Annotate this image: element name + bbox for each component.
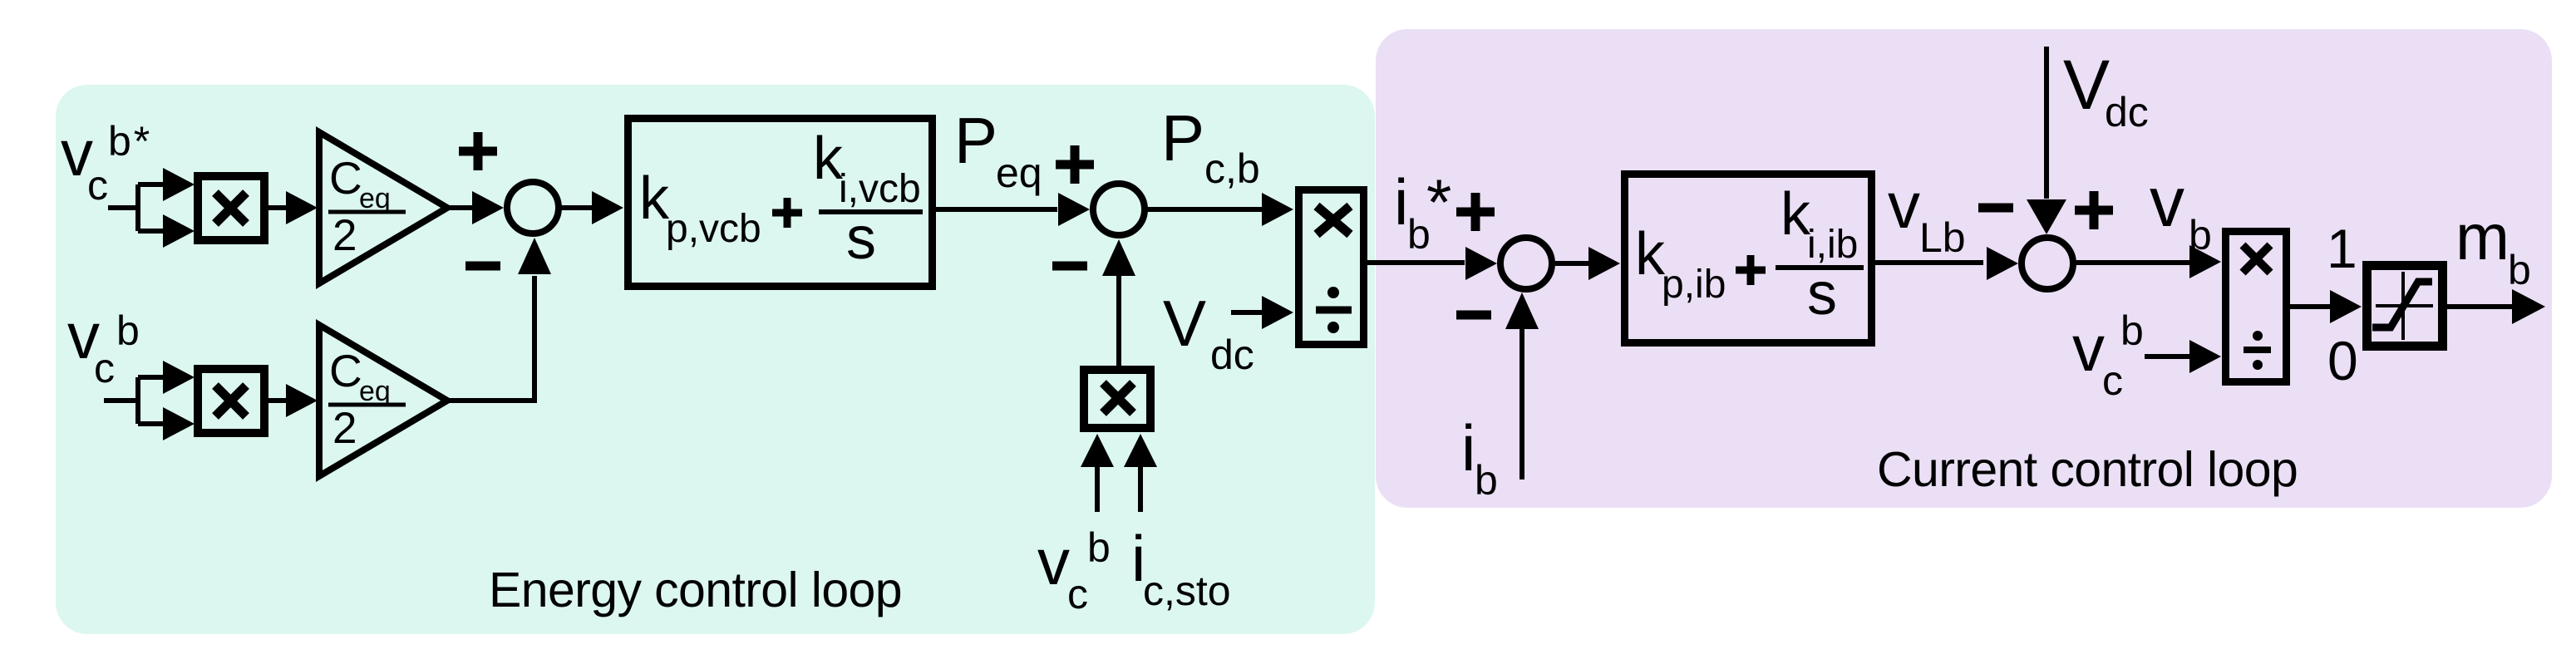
- arrowhead into PI1: [592, 191, 623, 224]
- wire S3 to PI2: [1555, 261, 1591, 266]
- arrowhead into D1 multiply port: [1262, 193, 1293, 226]
- svg-text:dc: dc: [1210, 332, 1254, 378]
- svg-text:P: P: [1161, 101, 1204, 175]
- arrowhead vcb into D2 divide port: [2189, 340, 2221, 373]
- svg-text:s: s: [1807, 261, 1837, 327]
- svg-text:b: b: [2120, 307, 2144, 354]
- wire saturation to output: [2447, 304, 2514, 309]
- gain block G1 Ceq/2: [319, 132, 447, 283]
- arrowhead vcb into M3: [1081, 434, 1114, 467]
- arrowhead into multiplier M2 bottom: [163, 407, 195, 440]
- label 1 saturation upper limit: [2327, 218, 2357, 279]
- arrowhead into gain G1: [286, 191, 318, 224]
- svg-text:b*: b*: [108, 118, 152, 165]
- energy control loop region: [56, 85, 1375, 634]
- node vcb* input label: [61, 116, 152, 209]
- svg-text:dc: dc: [2105, 89, 2149, 135]
- svg-text:2: 2: [332, 211, 357, 260]
- arrowhead into multiplier M2 top: [163, 361, 195, 394]
- divider block D2: [2226, 232, 2287, 382]
- svg-text:c: c: [87, 162, 108, 209]
- wire Vdc into D1: [1231, 310, 1262, 315]
- wire PI2 to summing junction S4: [1875, 260, 1983, 265]
- wire Vdc down into S4: [2044, 47, 2049, 199]
- svg-text:0: 0: [2327, 330, 2358, 391]
- label ic,sto below M3: [1131, 522, 1231, 614]
- arrowhead Vdc into D1 divide port: [1262, 296, 1293, 329]
- plus sign at S1: [459, 132, 497, 170]
- svg-text:Current control loop: Current control loop: [1877, 442, 2298, 497]
- summing junction S3: [1500, 238, 1552, 289]
- arrowhead output mb: [2512, 289, 2545, 324]
- node label vb: [2150, 163, 2212, 258]
- minus sign at S2: [1052, 262, 1087, 271]
- wire vcb into D2: [2145, 354, 2190, 359]
- saturation block: [2367, 266, 2443, 347]
- wire G1 to summing junction S1: [447, 205, 474, 210]
- arrowhead into PI2: [1588, 247, 1620, 280]
- node label mb: [2455, 200, 2531, 293]
- svg-text:eq: eq: [359, 183, 391, 214]
- arrowhead feedback into S1 bottom: [518, 238, 551, 274]
- PI controller block PI1 kp,vcb + ki,vcb/s: [628, 119, 933, 287]
- arrowhead Vdc into S4 top: [2027, 199, 2066, 234]
- label vcb below M3: [1037, 524, 1111, 617]
- arrowhead into saturation block: [2330, 290, 2362, 323]
- svg-text:v: v: [2072, 312, 2105, 385]
- wire D1 to summing junction S3: [1367, 260, 1465, 265]
- svg-text:eq: eq: [359, 376, 391, 407]
- svg-text:C: C: [329, 345, 362, 396]
- label ib: [1461, 411, 1498, 504]
- node label vLb: [1888, 169, 1966, 261]
- svg-text:c: c: [1067, 571, 1088, 617]
- arrowhead into S4: [1987, 247, 2018, 280]
- node label Pc,b: [1161, 101, 1260, 192]
- svg-text:p,ib: p,ib: [1662, 263, 1726, 307]
- svg-text:c,b: c,b: [1204, 145, 1260, 192]
- arrowhead M3 into S2 bottom: [1102, 239, 1135, 276]
- multiplier M1 (squarer): [198, 176, 264, 240]
- summing junction S2: [1093, 184, 1145, 235]
- wire vcb input: [104, 377, 165, 424]
- svg-text:c: c: [2102, 357, 2123, 404]
- svg-text:i: i: [1394, 165, 1408, 238]
- svg-text:s: s: [846, 205, 876, 272]
- wire ic,sto into M3: [1138, 464, 1143, 512]
- svg-text:*: *: [1426, 165, 1451, 238]
- label Current control loop: [1877, 442, 2298, 497]
- wire M1 to gain G1: [268, 205, 289, 210]
- wire S1 to PI1: [559, 205, 595, 210]
- arrowhead into D2 multiply port: [2189, 245, 2221, 278]
- label Energy control loop: [489, 563, 902, 617]
- svg-text:c,sto: c,sto: [1143, 568, 1231, 614]
- arrowhead into S3: [1465, 247, 1497, 280]
- minus sign at S4: [1978, 204, 2013, 213]
- PI controller block PI2 kp,ib + ki,ib/s: [1625, 175, 1872, 343]
- label 0 saturation lower limit: [2327, 330, 2358, 391]
- wire D2 to saturation block: [2290, 304, 2332, 309]
- wire G2 feedback to S1: [447, 276, 534, 401]
- svg-text:b: b: [2508, 247, 2531, 293]
- wire multiplier M3 to S2: [1116, 273, 1121, 366]
- label Vdc top: [2063, 46, 2149, 135]
- minus sign at S3: [1456, 311, 1491, 320]
- multiplier M3: [1084, 370, 1150, 428]
- arrowhead ib into S3 bottom: [1505, 293, 1539, 329]
- svg-text:V: V: [1163, 287, 1206, 360]
- svg-text:v: v: [1037, 525, 1070, 598]
- label vcb input: [67, 299, 140, 391]
- summing junction S4: [2022, 238, 2073, 289]
- svg-text:eq: eq: [996, 150, 1042, 196]
- divider block D1: [1299, 190, 1364, 345]
- svg-text:c: c: [94, 345, 115, 391]
- wire M2 to gain G2: [268, 398, 289, 403]
- svg-text:b: b: [116, 307, 140, 354]
- svg-text:b: b: [1475, 457, 1498, 504]
- wire vcb into M3: [1095, 464, 1100, 512]
- wire S2 to divider D1: [1145, 207, 1262, 212]
- arrowhead ic,sto into M3: [1124, 434, 1157, 467]
- svg-text:Lb: Lb: [1919, 214, 1966, 261]
- svg-text:v: v: [1888, 169, 1920, 242]
- wire S4 to divider D2: [2072, 260, 2190, 265]
- svg-text:1: 1: [2327, 218, 2357, 279]
- arrowhead into gain G2: [286, 384, 318, 417]
- label vcb divider input: [2072, 307, 2144, 404]
- svg-text:p,vcb: p,vcb: [666, 207, 761, 251]
- summing junction S1: [507, 182, 559, 234]
- plus sign at S4: [2075, 191, 2113, 229]
- plus sign at S3: [1456, 193, 1495, 231]
- plus sign at S2: [1056, 145, 1094, 184]
- gain block G2 Ceq/2: [319, 325, 447, 476]
- svg-text:C: C: [329, 152, 362, 204]
- node label Peq: [954, 104, 1042, 196]
- node label ib*: [1394, 165, 1451, 258]
- arrowhead into multiplier M1 top: [163, 168, 195, 201]
- svg-text:m: m: [2455, 200, 2510, 273]
- svg-text:v: v: [2150, 163, 2184, 241]
- wire PI1 to summing junction S2: [936, 207, 1057, 212]
- svg-text:Energy control loop: Energy control loop: [489, 563, 902, 617]
- arrowhead into multiplier M1 bottom: [163, 214, 195, 248]
- arrowhead into S1: [472, 191, 504, 224]
- svg-text:2: 2: [332, 404, 357, 453]
- wire vcb* input: [108, 184, 165, 231]
- svg-text:P: P: [954, 104, 997, 177]
- svg-text:b: b: [1087, 524, 1111, 571]
- multiplier M2 (squarer): [198, 369, 264, 433]
- arrowhead into S2: [1058, 193, 1090, 226]
- svg-text:V: V: [2063, 46, 2110, 124]
- label Vdc divider input: [1163, 287, 1254, 378]
- minus sign at S1: [465, 262, 500, 271]
- svg-text:i: i: [1461, 411, 1475, 484]
- current control loop region: [1376, 29, 2552, 508]
- wire ib into S3: [1519, 327, 1524, 479]
